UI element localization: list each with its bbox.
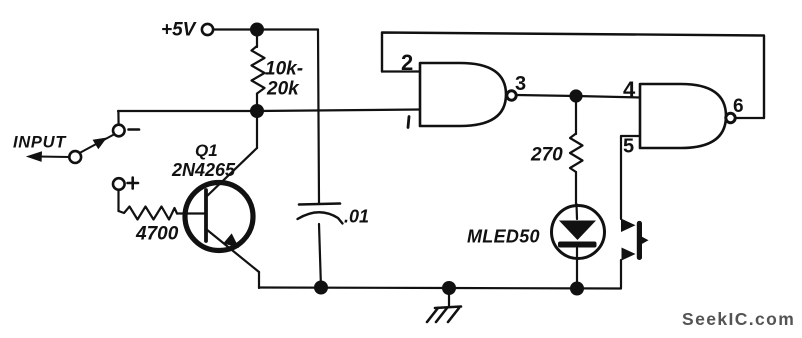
- svg-text:SeekIC.com: SeekIC.com: [682, 309, 795, 329]
- svg-text:20k: 20k: [266, 79, 300, 100]
- svg-text:2N4265: 2N4265: [171, 160, 236, 180]
- svg-text:4700: 4700: [135, 224, 179, 245]
- svg-text:5: 5: [623, 136, 634, 158]
- svg-text:6: 6: [733, 96, 744, 117]
- svg-text:4: 4: [623, 77, 636, 102]
- svg-text:INPUT: INPUT: [13, 134, 67, 152]
- svg-text:10k-: 10k-: [265, 59, 303, 80]
- svg-text:270: 270: [530, 145, 563, 166]
- svg-text:+5V: +5V: [161, 20, 197, 41]
- svg-text:2: 2: [401, 50, 413, 75]
- svg-text:.01: .01: [344, 207, 369, 227]
- svg-text:Q1: Q1: [195, 141, 218, 160]
- svg-text:MLED50: MLED50: [467, 227, 540, 247]
- svg-text:3: 3: [515, 73, 526, 95]
